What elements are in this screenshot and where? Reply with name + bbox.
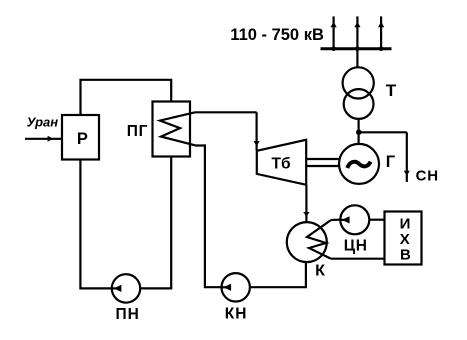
wire KN pump to PG coil [195,146,222,288]
wire condenser bottom to KN pump [250,262,306,287]
steam generator PG box [153,102,191,157]
svg-text:Уран: Уран [27,115,59,130]
wire CN to K coil [331,219,340,222]
svg-text:ПН: ПН [116,306,140,323]
PG heat exchanger coil [160,112,195,145]
svg-text:ЦН: ЦН [344,237,368,254]
transformer T [343,67,374,119]
outgoing line arrow 1 [331,16,337,51]
uranium feed arrow [25,136,62,142]
svg-text:110 - 750 кВ: 110 - 750 кВ [230,26,324,44]
svg-text:Т: Т [386,81,397,100]
turbine Tb [257,140,306,185]
wire turbine to condenser [303,185,309,222]
wire bus to transformer [356,49,358,67]
svg-text:СН: СН [416,168,439,185]
svg-text:КН: КН [225,305,248,322]
svg-text:К: К [315,262,325,279]
svg-text:ПГ: ПГ [127,123,149,140]
outgoing line arrow 3 [378,16,384,51]
svg-text:И: И [400,215,411,232]
svg-text:В: В [400,247,411,264]
pump KN [222,273,250,301]
junction node [356,129,362,135]
pump CN [340,205,369,234]
K cooling coil [307,220,331,259]
outgoing line arrow 2 [354,16,360,51]
svg-text:Тб: Тб [272,156,291,173]
condenser K [287,222,327,262]
svg-text:Х: Х [400,231,410,248]
svg-text:Р: Р [77,130,88,148]
svg-text:Г: Г [386,153,396,171]
wire PG top to reactor top [81,80,172,115]
wire CN to IHV box [369,219,384,221]
wire reactor bottom to PN pump [80,160,112,289]
wire PN pump to PG bottom [140,157,171,289]
reactor R box [62,115,99,160]
shaft coupling double line [306,159,339,166]
wire transformer to generator [358,120,360,143]
steam wire PG to turbine [195,112,260,150]
bus bar [321,47,392,50]
generator G [339,144,379,184]
pump PN [112,274,140,302]
wire to station needs [358,132,410,182]
wire K coil to IHV box [331,258,385,260]
cold water source IHV box [385,212,422,265]
